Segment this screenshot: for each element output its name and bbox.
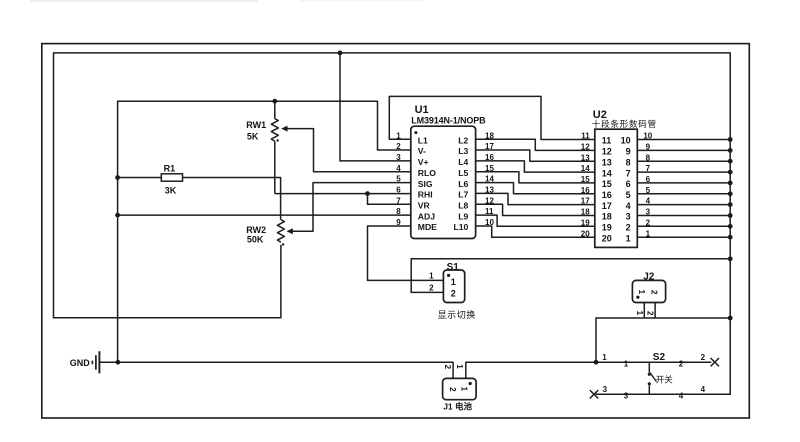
svg-text:开关: 开关: [656, 375, 674, 385]
svg-text:1: 1: [429, 272, 434, 281]
svg-text:1: 1: [626, 233, 631, 243]
svg-text:VR: VR: [418, 201, 431, 211]
svg-text:16: 16: [485, 153, 494, 162]
node U2 pin5 bus junction: [728, 191, 733, 196]
ground symbol: [91, 361, 93, 365]
wire U2 pin8 to right bus: [637, 160, 730, 162]
resistor RW2 50K (potentiometer): [277, 220, 284, 242]
wire R1 right lead jog down to RHI net and RW2 top lead: [183, 178, 281, 220]
switch S2 arm: [650, 373, 656, 382]
svg-text:R1: R1: [164, 164, 176, 174]
wire RW1 top lead: [274, 101, 276, 119]
svg-text:L8: L8: [458, 201, 468, 211]
wire supply loop: top rail, left rail, bottom-left rail and right bus: [54, 53, 731, 394]
svg-text:2: 2: [396, 142, 401, 151]
wire RW2 wiper to U1 pin5 SIG: [293, 183, 411, 232]
svg-text:11: 11: [602, 136, 612, 146]
svg-text:RW1: RW1: [246, 120, 266, 130]
wire J2 net to bus and down to GND rail: [596, 318, 730, 362]
wire U2 pin2 to right bus: [637, 225, 730, 227]
op-amp U1 LM3914 body: [411, 126, 476, 238]
wire U1 pin10 L10 to U2 pin20: [476, 226, 595, 237]
svg-text:3K: 3K: [165, 185, 177, 195]
node J2/bus junction: [728, 316, 733, 321]
wire U1 pin11 L9 to U2 pin19: [476, 215, 595, 226]
svg-text:11: 11: [485, 207, 494, 216]
svg-text:3: 3: [603, 385, 608, 394]
wire GND net vertical x=117.6 with V- branch: [118, 101, 411, 362]
wire R1 left lead from GND vertical: [118, 177, 162, 179]
svg-text:8: 8: [396, 207, 401, 216]
svg-text:1: 1: [602, 353, 607, 362]
svg-text:6: 6: [396, 186, 401, 195]
svg-text:L7: L7: [458, 190, 468, 200]
wire U2 pin5 to right bus: [637, 193, 730, 195]
svg-text:14: 14: [581, 164, 590, 173]
svg-text:2: 2: [626, 223, 631, 233]
wire U2 pin4 to right bus: [637, 204, 730, 206]
svg-text:5K: 5K: [247, 132, 259, 142]
node R1/GND junction: [115, 175, 120, 180]
node U2 pin3 bus junction: [728, 213, 733, 218]
svg-text:3: 3: [626, 212, 631, 222]
svg-text:11: 11: [581, 132, 590, 141]
node ADJ/GND junction: [115, 213, 120, 218]
no-connect X on S2 terminal 3: [590, 390, 598, 398]
svg-text:1: 1: [635, 311, 644, 316]
node U2 pin8 bus junction: [728, 159, 733, 164]
svg-text:15: 15: [581, 175, 590, 184]
wire U1 pin18 L2 to U2 pin12: [476, 139, 595, 150]
svg-text:L4: L4: [458, 157, 468, 167]
svg-text:9: 9: [396, 218, 401, 227]
svg-text:14: 14: [602, 168, 612, 178]
svg-text:L10: L10: [453, 222, 468, 232]
svg-text:50K: 50K: [247, 235, 264, 245]
svg-text:17: 17: [602, 201, 612, 211]
svg-text:18: 18: [485, 131, 494, 140]
svg-text:V+: V+: [418, 157, 429, 167]
svg-text:6: 6: [646, 175, 651, 184]
wire S1 pin2 to right bus: [411, 259, 730, 293]
svg-text:1: 1: [637, 290, 646, 295]
svg-text:5: 5: [626, 190, 631, 200]
wire U1 pin1 L1 loop to U2 pin11: [389, 96, 595, 139]
svg-text:2: 2: [646, 218, 651, 227]
node V+ tap junction: [338, 51, 343, 56]
svg-text:RW2: RW2: [246, 225, 266, 235]
node U2 pin1 bus junction: [728, 235, 733, 240]
resistor R1 3K: [161, 174, 182, 181]
svg-text:1: 1: [455, 364, 464, 369]
wire U2 pin10 to right bus: [637, 139, 730, 141]
svg-text:S1: S1: [447, 262, 460, 273]
node U2 pin2 bus junction: [728, 224, 733, 229]
svg-text:1: 1: [451, 277, 456, 287]
switch S2 lower contact: [648, 382, 651, 385]
wire U1 pin14 L6 to U2 pin16: [476, 183, 595, 194]
svg-text:3: 3: [624, 392, 629, 401]
node GND rail junction: [116, 360, 121, 365]
svg-text:15: 15: [485, 164, 494, 173]
node U2 pin6 bus junction: [728, 181, 733, 186]
svg-text:16: 16: [602, 190, 612, 200]
wire branch RHI to U1 pin7 VR: [368, 194, 411, 205]
svg-text:SIG: SIG: [418, 179, 433, 189]
svg-text:18: 18: [581, 208, 590, 217]
svg-text:8: 8: [646, 153, 651, 162]
svg-text:S2: S2: [653, 352, 666, 363]
svg-text:L2: L2: [458, 135, 468, 145]
wire U1 pin15 L5 to U2 pin15: [476, 172, 595, 183]
wire GND rail left segment to J1 pin2: [99, 362, 453, 378]
svg-text:10: 10: [621, 136, 631, 146]
svg-text:6: 6: [626, 179, 631, 189]
svg-text:U1: U1: [415, 104, 429, 116]
resistor RW1 5K (potentiometer): [271, 119, 278, 142]
svg-text:4: 4: [679, 392, 684, 401]
wire U2 pin1 to right bus: [637, 236, 730, 238]
svg-text:2: 2: [646, 311, 655, 316]
svg-text:L3: L3: [458, 146, 468, 156]
svg-text:MDE: MDE: [418, 222, 437, 232]
svg-text:9: 9: [646, 143, 651, 152]
svg-text:15: 15: [602, 179, 612, 189]
svg-text:显示切换: 显示切换: [438, 309, 476, 320]
svg-text:13: 13: [485, 186, 494, 195]
svg-text:2: 2: [451, 288, 456, 298]
display U2 body: [595, 129, 638, 247]
svg-text:4: 4: [701, 385, 706, 394]
node RW1 top junction: [272, 99, 277, 104]
wire J2 pin1 stub: [643, 303, 645, 319]
switch S1 body: [443, 270, 464, 303]
node S1-2/bus junction: [728, 256, 733, 261]
svg-text:V-: V-: [418, 146, 426, 156]
svg-text:十段条形数码管: 十段条形数码管: [592, 119, 657, 129]
node U2 pin4 bus junction: [728, 202, 733, 207]
svg-text:GND: GND: [70, 358, 91, 368]
svg-text:13: 13: [581, 153, 590, 162]
svg-text:7: 7: [396, 196, 401, 205]
U1 pin1 marker dot: [414, 131, 417, 134]
svg-text:J2: J2: [643, 272, 655, 283]
node U2 pin7 bus junction: [728, 170, 733, 175]
svg-text:4: 4: [626, 201, 631, 211]
svg-text:L1: L1: [418, 135, 428, 145]
svg-text:RHI: RHI: [418, 190, 433, 200]
svg-text:2: 2: [429, 284, 434, 293]
svg-text:2: 2: [443, 365, 452, 370]
svg-text:3: 3: [396, 153, 401, 162]
svg-text:4: 4: [646, 197, 651, 206]
wire U2 pin6 to right bus: [637, 182, 730, 184]
wire S2 lower contact to bottom wire: [648, 385, 650, 394]
svg-text:9: 9: [626, 147, 631, 157]
wire U1 pin9 MDE down to S1 pin1: [368, 226, 444, 280]
svg-text:2: 2: [701, 353, 706, 362]
svg-text:19: 19: [602, 223, 612, 233]
svg-text:5: 5: [646, 186, 651, 195]
svg-text:1: 1: [396, 131, 401, 140]
svg-text:J1 电池: J1 电池: [443, 402, 472, 412]
wire GND rail right segment from J1 pin1 to S2 terminal 2: [466, 362, 711, 378]
wire U2 pin9 to right bus: [637, 149, 730, 151]
wire RW1 bottom lead: [274, 141, 276, 193]
wire U1 pin13 L7 to U2 pin17: [476, 193, 595, 204]
svg-text:20: 20: [581, 229, 590, 238]
svg-text:19: 19: [581, 218, 590, 227]
svg-text:3: 3: [646, 208, 651, 217]
svg-text:12: 12: [485, 196, 494, 205]
J1 pin1 marker dot: [469, 382, 472, 385]
svg-text:4: 4: [396, 164, 401, 173]
node U2 pin10 bus junction: [728, 137, 733, 142]
svg-text:8: 8: [626, 157, 631, 167]
svg-text:10: 10: [485, 218, 494, 227]
svg-text:10: 10: [643, 132, 652, 141]
node J2/GND rail junction: [594, 360, 599, 365]
svg-text:18: 18: [602, 212, 612, 222]
S1 pin1 marker dot: [447, 274, 450, 277]
svg-text:12: 12: [581, 143, 590, 152]
wire U1 pin17 L3 to U2 pin13: [476, 150, 595, 161]
svg-text:14: 14: [485, 175, 494, 184]
svg-text:7: 7: [646, 164, 651, 173]
wire S2 pole from GND rail: [648, 362, 650, 372]
wire RW1 wiper to U1 pin4 RLO: [288, 129, 411, 172]
wire ADJ net to U1 pin8: [118, 214, 411, 216]
svg-text:LM3914N-1/NOPB: LM3914N-1/NOPB: [411, 116, 486, 126]
connector J1 body: [443, 378, 477, 399]
node RHI/VR junction: [365, 191, 370, 196]
wire U1 pin16 L4 to U2 pin14: [476, 161, 595, 172]
svg-text:13: 13: [602, 157, 612, 167]
switch S2 upper contact: [648, 373, 651, 376]
svg-text:ADJ: ADJ: [418, 211, 435, 221]
node U2 pin9 bus junction: [728, 148, 733, 153]
wire U2 pin7 to right bus: [637, 171, 730, 173]
svg-text:1: 1: [459, 387, 468, 392]
svg-text:2: 2: [679, 360, 684, 369]
svg-text:L5: L5: [458, 168, 468, 178]
wire J2 pin2 stub: [654, 303, 656, 319]
svg-text:1: 1: [624, 360, 629, 369]
wire U2 pin3 to right bus: [637, 215, 730, 217]
wire RW2 bottom lead: [280, 245, 282, 247]
wire U1 pin3 V+ to top rail: [340, 53, 411, 161]
svg-text:1: 1: [646, 229, 651, 238]
svg-text:20: 20: [602, 233, 612, 243]
wire RHI net to U1 pin6: [275, 193, 411, 195]
svg-text:17: 17: [485, 142, 494, 151]
svg-text:17: 17: [581, 197, 590, 206]
no-connect X on S2 terminal 2: [711, 358, 719, 366]
faint cropped title text at very top: [30, 0, 258, 2]
svg-text:7: 7: [626, 168, 631, 178]
svg-text:5: 5: [396, 175, 401, 184]
wire U1 pin12 L8 to U2 pin18: [476, 204, 595, 215]
J2 pin1 marker dot: [636, 296, 639, 299]
svg-text:L9: L9: [458, 211, 468, 221]
svg-text:16: 16: [581, 186, 590, 195]
svg-text:2: 2: [649, 290, 658, 295]
connector J2 body: [632, 280, 665, 302]
svg-text:12: 12: [602, 147, 612, 157]
svg-text:RLO: RLO: [418, 168, 436, 178]
svg-text:2: 2: [448, 387, 457, 392]
schematic outer border frame: [42, 44, 750, 418]
svg-text:L6: L6: [458, 179, 468, 189]
